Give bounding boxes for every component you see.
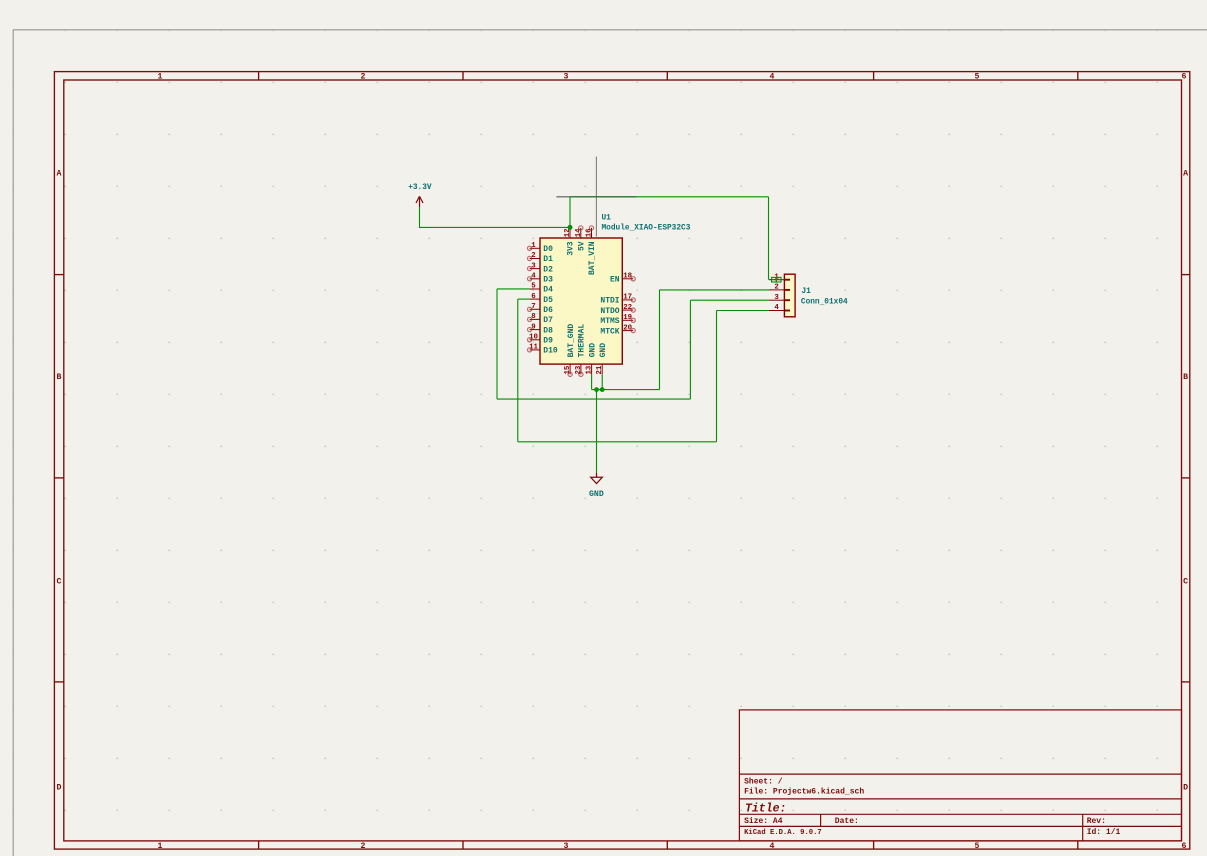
svg-text:D2: D2 <box>543 265 553 274</box>
svg-text:5: 5 <box>975 73 980 82</box>
ground symbol GND <box>591 473 603 484</box>
wire from U1 pin 21 (GND) down <box>601 374 603 389</box>
svg-text:6: 6 <box>531 293 536 301</box>
U1 bottom pin 15 (BAT_GND) <box>569 364 571 374</box>
U1 right pin 22 (NTDO) <box>622 309 633 311</box>
junction at U1 pin 12 / +3.3V <box>568 225 573 230</box>
wire +3.3V horizontal to U1 pin 12 <box>419 226 570 228</box>
svg-text:D4: D4 <box>543 286 553 295</box>
svg-text:Module_XIAO-ESP32C3: Module_XIAO-ESP32C3 <box>602 225 691 233</box>
svg-text:6: 6 <box>1182 842 1187 851</box>
svg-text:5V: 5V <box>578 241 587 251</box>
svg-text:4: 4 <box>770 842 775 851</box>
U1 top pin 12 (3V3) <box>569 228 571 238</box>
svg-text:D0: D0 <box>543 245 553 254</box>
U1 right pin 18 (EN) <box>622 278 633 280</box>
svg-text:4: 4 <box>770 73 775 82</box>
svg-text:A: A <box>57 170 62 179</box>
svg-text:D8: D8 <box>543 326 553 335</box>
U1 left pin 8 (D7) <box>530 318 540 320</box>
svg-text:B: B <box>1183 373 1188 382</box>
svg-text:THERMAL: THERMAL <box>578 324 587 358</box>
svg-text:D: D <box>57 784 62 793</box>
svg-text:D6: D6 <box>543 306 553 315</box>
svg-text:MTMS: MTMS <box>600 317 619 326</box>
svg-text:GND: GND <box>588 343 597 358</box>
svg-text:3: 3 <box>564 73 569 82</box>
svg-text:5: 5 <box>531 283 536 291</box>
dangling wire-end squares at J1 pin 1 <box>772 277 777 282</box>
wire D4 vertical down <box>496 289 498 399</box>
svg-text:NTDO: NTDO <box>600 307 619 316</box>
wire horizontal above U1 to J1 pin 1 column <box>570 196 769 198</box>
svg-text:13: 13 <box>586 365 594 374</box>
J1 pin 4 <box>769 310 784 312</box>
wire D5 vertical down <box>517 299 519 442</box>
svg-text:MTCK: MTCK <box>600 327 619 336</box>
svg-text:Id: 1/1: Id: 1/1 <box>1087 828 1121 837</box>
U1 right pin 19 (MTMS) <box>622 319 633 321</box>
U1 right pin 17 (NTDI) <box>622 299 633 301</box>
U1 left pin 9 (D8) <box>530 329 540 331</box>
svg-text:21: 21 <box>596 365 604 374</box>
U1 left pin 2 (D1) <box>530 258 540 260</box>
U1 left pin 1 (D0) <box>530 247 540 249</box>
wire GND into J1 pin 2 <box>660 289 770 291</box>
wire D5 into J1 pin 4 <box>717 310 770 312</box>
U1 top pin 14 (5V) <box>580 228 582 238</box>
svg-text:Size: A4: Size: A4 <box>744 817 783 826</box>
svg-text:U1: U1 <box>602 215 612 223</box>
svg-text:File: Projectw6.kicad_sch: File: Projectw6.kicad_sch <box>744 788 864 797</box>
svg-text:2: 2 <box>774 284 778 292</box>
svg-text:GND: GND <box>589 490 604 499</box>
svg-text:Date:: Date: <box>835 817 859 826</box>
svg-text:Conn_01x04: Conn_01x04 <box>801 299 848 307</box>
svg-text:1: 1 <box>158 73 163 82</box>
wire up from junction at pin 12 <box>569 197 571 228</box>
svg-text:D5: D5 <box>543 296 553 305</box>
svg-text:1: 1 <box>158 842 163 851</box>
connector J1 Conn_01x04 body <box>784 274 795 317</box>
wire D4 horizontal bottom <box>497 398 690 400</box>
svg-text:C: C <box>1183 578 1188 587</box>
svg-text:Rev:: Rev: <box>1087 817 1106 826</box>
svg-text:D7: D7 <box>543 316 553 325</box>
junction on GND rail at pin 21 <box>600 387 605 392</box>
wire from U1 pin 5 (D4) left <box>497 288 530 290</box>
U1 right pin 20 (MTCK) <box>622 330 633 332</box>
svg-text:KiCad E.D.A. 9.0.7: KiCad E.D.A. 9.0.7 <box>744 829 822 837</box>
U1 bottom pin 23 (THERMAL) <box>580 364 582 374</box>
wire GND vertical up to J1 pin 2 row <box>659 290 661 390</box>
U1 top pin 16 (BAT_VIN) <box>591 228 593 238</box>
wire from U1 pin 13 (GND) down <box>591 374 593 389</box>
J1 pin 2 <box>769 289 784 291</box>
svg-text:5: 5 <box>975 842 980 851</box>
U1 left pin 6 (D5) <box>530 298 540 300</box>
cursor crosshair horizontal <box>556 196 636 198</box>
wire down to J1 pin 1 <box>768 197 770 280</box>
wire from U1 pin 6 (D5) left <box>518 298 530 300</box>
J1 pin 3 <box>769 299 784 301</box>
cursor crosshair vertical <box>595 157 597 237</box>
svg-text:D9: D9 <box>543 337 553 346</box>
svg-text:EN: EN <box>610 276 620 285</box>
power symbol +3.3V <box>416 196 423 207</box>
wire D4 vertical up to J1 pin 3 row <box>689 300 691 399</box>
U1 bottom pin 13 (GND) <box>591 364 593 374</box>
U1 left pin 4 (D3) <box>530 278 540 280</box>
svg-text:D10: D10 <box>543 347 558 356</box>
wire D5 horizontal bottom <box>518 441 717 443</box>
U1 bottom pin 21 (GND) <box>601 364 603 374</box>
svg-text:+3.3V: +3.3V <box>408 184 432 192</box>
svg-text:D3: D3 <box>543 276 553 285</box>
wire GND stem down to ground symbol <box>596 390 598 473</box>
U1 left pin 11 (D10) <box>530 349 540 351</box>
U1 left pin 5 (D4) <box>530 288 540 290</box>
junction on GND rail at stem <box>594 387 599 392</box>
svg-text:6: 6 <box>1182 73 1187 82</box>
U1 left pin 7 (D6) <box>530 308 540 310</box>
svg-text:C: C <box>57 578 62 587</box>
wire GND horizontal rail <box>592 389 660 391</box>
svg-text:4: 4 <box>774 304 779 312</box>
svg-text:2: 2 <box>361 842 366 851</box>
svg-text:GND: GND <box>599 343 608 358</box>
symbol U1 Module_XIAO-ESP32C3 body <box>540 238 622 364</box>
svg-text:J1: J1 <box>802 288 812 296</box>
svg-text:3V3: 3V3 <box>567 241 576 256</box>
svg-text:D: D <box>1183 784 1188 793</box>
U1 left pin 10 (D9) <box>530 339 540 341</box>
wire D4 into J1 pin 3 <box>690 299 769 301</box>
svg-text:BAT_VIN: BAT_VIN <box>588 241 597 275</box>
paper edge left <box>12 30 14 856</box>
svg-text:D1: D1 <box>543 255 553 264</box>
J1 pin 1 <box>769 279 784 281</box>
title block <box>739 710 1181 841</box>
cursor crosshair overlay segment <box>556 196 636 198</box>
svg-text:BAT_GND: BAT_GND <box>567 324 576 358</box>
wire D5 vertical up to J1 pin 4 row <box>716 311 718 442</box>
svg-text:B: B <box>57 373 62 382</box>
U1 left pin 3 (D2) <box>530 268 540 270</box>
svg-text:3: 3 <box>774 294 779 302</box>
svg-text:3: 3 <box>564 842 569 851</box>
svg-text:A: A <box>1183 170 1188 179</box>
svg-text:Sheet: /: Sheet: / <box>744 778 783 787</box>
paper edge top <box>13 29 1207 31</box>
wire +3.3V stem down <box>419 207 421 227</box>
svg-text:2: 2 <box>361 73 366 82</box>
svg-text:NTDI: NTDI <box>600 297 619 306</box>
svg-text:Title:: Title: <box>745 803 786 816</box>
